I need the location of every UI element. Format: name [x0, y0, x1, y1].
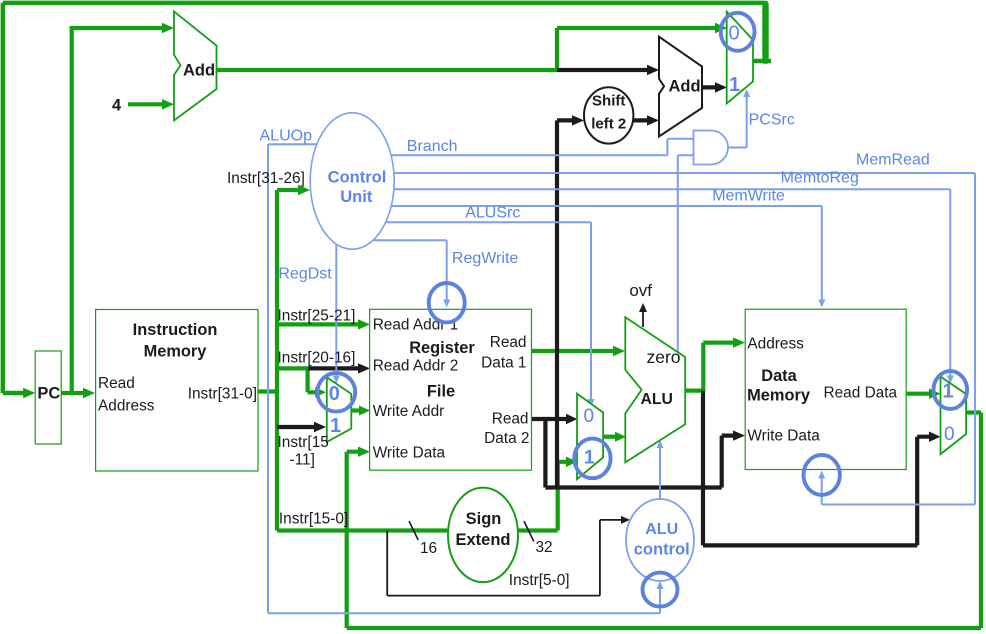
svg-text:Read: Read — [490, 334, 527, 351]
svg-text:0: 0 — [584, 406, 595, 427]
svg-text:1: 1 — [584, 448, 595, 469]
svg-text:Instr[15: Instr[15 — [278, 434, 329, 451]
annotation circle on MemRead arrow — [804, 455, 840, 495]
svg-text:0: 0 — [729, 23, 740, 45]
svg-text:Read Addr 2: Read Addr 2 — [373, 358, 459, 375]
svg-text:Instr[25-21]: Instr[25-21] — [278, 308, 356, 325]
svg-text:Data 2: Data 2 — [484, 430, 529, 447]
wire Read Data 1 to ALU — [532, 349, 618, 353]
mux PCSrc (top right) — [727, 12, 753, 104]
arrowhead Instr[20-16] into RegDst mux 0 — [315, 387, 326, 397]
annotation circle on RegWrite arrow — [429, 283, 465, 322]
wire RegDst mux output to Write Addr — [351, 408, 362, 412]
wire zero from ALU to AND gate — [678, 155, 694, 352]
svg-text:Add: Add — [183, 62, 215, 80]
svg-text:PCSrc: PCSrc — [749, 112, 795, 129]
wire Instr[15-11] to RegDst mux 1 — [277, 425, 318, 429]
annotation circle on MemtoReg mux 1 — [934, 371, 968, 409]
wire PC output branch up to Add (PC+4) — [72, 28, 166, 393]
svg-text:MemtoReg: MemtoReg — [781, 170, 859, 187]
svg-text:ovf: ovf — [629, 281, 652, 300]
annotation circle on RegDst mux 0 — [317, 373, 355, 412]
wire MemWrite from Control Unit to Data Memory top — [353, 206, 822, 301]
svg-text:Write Addr: Write Addr — [373, 403, 445, 420]
svg-text:Read Addr 1: Read Addr 1 — [373, 317, 459, 334]
svg-text:Write Data: Write Data — [747, 428, 820, 445]
svg-text:MemRead: MemRead — [856, 152, 930, 169]
svg-text:ALUSrc: ALUSrc — [465, 205, 520, 222]
wire RegWrite from Control Unit to Register File top — [336, 240, 446, 301]
svg-text:4: 4 — [112, 96, 122, 114]
svg-text:RegDst: RegDst — [278, 266, 332, 283]
wire Shift left 2 output to branch Add — [633, 118, 651, 122]
svg-text:Control: Control — [328, 168, 387, 186]
wire ALU result to Data Memory Address — [685, 343, 737, 391]
mux MemtoReg (right) — [941, 377, 967, 455]
wire ALUOp from Control Unit to ALU control — [268, 144, 660, 613]
AND gate (branch and zero) — [694, 131, 729, 165]
instruction memory — [96, 310, 258, 472]
annotation circle on PCSrc mux 0 — [721, 13, 755, 51]
wire ALU control to ALU — [659, 446, 661, 499]
wire ALUSrc mux output to ALU — [603, 435, 617, 439]
svg-text:Shift: Shift — [592, 93, 625, 110]
svg-text:Instr[20-16]: Instr[20-16] — [278, 350, 356, 367]
svg-text:32: 32 — [536, 539, 553, 556]
wire Instr[20-16] green segment — [277, 368, 318, 392]
svg-text:ALU: ALU — [645, 521, 678, 538]
wire Read Data 2 down and to Data Memory Write Data — [545, 419, 737, 488]
wire PCSrc from AND gate to mux select — [728, 95, 747, 148]
svg-text:Register: Register — [409, 339, 475, 357]
wire Read Data 2 to ALUSrc mux 0 — [532, 417, 571, 421]
wire PC output to instruction memory — [61, 391, 87, 395]
svg-text:File: File — [427, 383, 455, 401]
mux RegDst — [327, 377, 352, 442]
svg-text:Write Data: Write Data — [373, 445, 446, 462]
svg-text:RegWrite: RegWrite — [452, 250, 518, 267]
svg-text:1: 1 — [330, 415, 341, 437]
wire PC feedback loop (mux output to top edge, left edge, into PC) — [3, 1, 771, 393]
sign extend — [448, 488, 518, 583]
svg-text:Branch: Branch — [407, 138, 458, 155]
svg-text:MemWrite: MemWrite — [712, 188, 785, 205]
svg-text:16: 16 — [420, 540, 437, 557]
wire 4 into Add — [128, 102, 166, 106]
wire MemRead from Control Unit to Data Memory bottom — [353, 173, 975, 505]
wire ALUSrc from Control Unit to ALUSrc mux select — [353, 222, 591, 401]
svg-text:0: 0 — [329, 383, 340, 405]
svg-text:Unit: Unit — [340, 188, 373, 206]
wire Add output PC+4 — [217, 28, 720, 70]
svg-text:Extend: Extend — [455, 531, 510, 549]
wire Instr[20-16] black segment to Read Addr 2 — [308, 366, 362, 370]
annotation circle on ALUOp arrow — [643, 573, 678, 607]
svg-text:Read: Read — [98, 375, 135, 392]
register file — [370, 309, 532, 470]
svg-text:1: 1 — [729, 74, 740, 96]
PC register — [35, 351, 61, 444]
wire ovf output arrow from ALU top — [642, 309, 644, 327]
wire Branch from Control Unit to AND gate — [353, 139, 694, 156]
svg-text:ALU: ALU — [640, 391, 672, 408]
svg-text:ALUOp: ALUOp — [260, 128, 313, 145]
svg-text:Instr[5-0]: Instr[5-0] — [509, 572, 570, 589]
svg-text:control: control — [634, 541, 690, 559]
wire Data Memory Read Data to right mux 1 — [906, 392, 933, 396]
svg-text:zero: zero — [646, 347, 680, 367]
svg-text:-11]: -11] — [290, 452, 315, 469]
annotation circle on ALUSrc mux 1 — [574, 439, 610, 479]
svg-text:Address: Address — [747, 336, 804, 353]
adder Add (branch target) — [659, 37, 702, 137]
svg-text:1: 1 — [943, 381, 954, 403]
svg-text:Add: Add — [669, 78, 701, 96]
wire MemtoReg from Control Unit to right mux select — [353, 189, 950, 377]
wire Instr[25-21] to Read Addr 1 — [277, 322, 362, 326]
svg-text:Memory: Memory — [144, 343, 208, 361]
svg-text:Sign: Sign — [466, 510, 502, 528]
svg-text:left 2: left 2 — [591, 116, 626, 133]
svg-text:Address: Address — [98, 398, 155, 415]
wire Instr[15-0] to Sign Extend and up to ALUSrc mux 1 — [277, 462, 570, 531]
wire sign-extend branch up to Shift left 2 — [557, 120, 576, 487]
ALU control — [626, 499, 694, 581]
wire Instr[5-0] to ALU control — [387, 520, 623, 596]
arrowhead into PC — [23, 388, 35, 398]
svg-text:Data 1: Data 1 — [481, 354, 526, 371]
control unit — [310, 113, 394, 249]
wire instruction bus Instr[31-0] — [258, 190, 302, 531]
bus width slash 32 — [524, 521, 534, 541]
svg-text:Read: Read — [492, 411, 529, 428]
shift left 2 — [584, 87, 633, 143]
svg-text:Instruction: Instruction — [133, 321, 218, 339]
wire ALU result black return to right mux 0 — [703, 391, 933, 546]
data memory — [745, 309, 906, 469]
ALU — [625, 317, 685, 462]
arrowhead PC+4 into mux 0 input — [715, 23, 727, 33]
wire PC+4 to branch Add (black segment) — [557, 68, 651, 72]
svg-text:Instr[31-26]: Instr[31-26] — [227, 170, 305, 187]
adder Add (PC+4) — [174, 11, 217, 120]
wire RegDst from Control Unit to RegDst mux select — [335, 240, 337, 377]
svg-text:PC: PC — [37, 384, 60, 402]
mux ALUSrc — [577, 394, 603, 480]
svg-text:Memory: Memory — [747, 387, 811, 405]
svg-text:Instr[31-0]: Instr[31-0] — [188, 386, 257, 403]
svg-text:Instr[15-0]: Instr[15-0] — [279, 511, 348, 528]
svg-text:Data: Data — [761, 367, 797, 385]
wire write-back: right mux output around bottom to Write Data — [347, 413, 981, 629]
bus width slash 16 — [409, 521, 418, 540]
svg-text:Read Data: Read Data — [824, 385, 898, 402]
wire branch Add output to mux 1 input — [702, 85, 719, 89]
svg-text:0: 0 — [944, 424, 955, 445]
arrowhead Instr[31-26] into Control Unit — [298, 185, 310, 195]
